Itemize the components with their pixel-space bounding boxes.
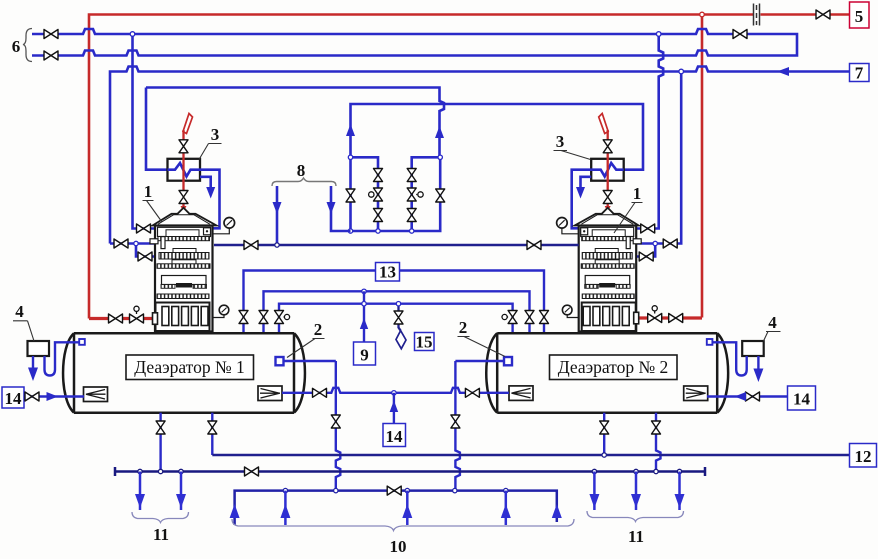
brace and label 11 left: [132, 512, 189, 523]
svg-text:11: 11: [628, 527, 644, 546]
wire: left regulator group piping: [351, 157, 441, 231]
label box 14 middle: [383, 424, 406, 447]
valve red above HX1: [179, 140, 188, 153]
valve on header 6 upper left: [44, 30, 58, 39]
wire: drain stand from tank 2 level tap (x=455.4): [455, 361, 460, 491]
heat exchanger U1 (left, item 3): [168, 159, 201, 181]
valve on transfer line right: [465, 388, 479, 397]
node at 15-line: [396, 302, 400, 306]
brace and label 11 right: [587, 511, 684, 522]
valve on 14 right: [746, 392, 760, 401]
valve on manifold 10: [387, 486, 401, 495]
node: 8 stub joins equalizer: [275, 243, 279, 247]
deaerator tank 2 shell: [486, 333, 728, 413]
wire: column 2 feedwater nozzles from line 7: [636, 72, 681, 257]
valve on header 6 lower left: [44, 51, 58, 60]
wire: red steam feed to column 1 bottom: [89, 317, 153, 320]
wire: HX2 vent with down arrow: [581, 177, 592, 190]
hydroseal device 4 on tank 2: [742, 341, 764, 356]
flow arrow up on x=350.5: [346, 124, 355, 136]
flow arrow up on x=439.5: [435, 126, 444, 138]
svg-text:10: 10: [390, 537, 407, 556]
wire: transfer line between tanks y=392.8: [282, 388, 509, 393]
valve on 14 left: [25, 392, 39, 401]
deaerator column 1 (item 1): [150, 208, 217, 332]
flame symbol (vapor) above HX1: [183, 114, 193, 134]
control valve left group bypass 2: [374, 188, 383, 201]
valve on header 6 upper right: [733, 30, 747, 39]
valve left group main: [346, 189, 355, 202]
wire: inputs manifold 10 (y=490.6): [235, 491, 557, 525]
svg-text:4: 4: [15, 302, 24, 321]
svg-text:Деаэратор № 1: Деаэратор № 1: [134, 357, 245, 377]
sparger right in tank 1: [258, 386, 282, 401]
pressure gauge column 2 bottom: [567, 315, 578, 318]
deaerator column 2 (item 1, mirrored): [575, 208, 642, 332]
node at 9-line and inner header: [362, 302, 366, 306]
wire: blue coil through HX1 and outlet to column 1 roof: [168, 163, 220, 228]
svg-text:13: 13: [379, 263, 396, 282]
wire: blue header 6 upper (y=34): [32, 29, 797, 56]
svg-text:14: 14: [386, 427, 404, 446]
svg-text:4: 4: [768, 313, 777, 332]
svg-text:2: 2: [314, 320, 323, 339]
valve on y=291.3 drop right: [525, 311, 534, 324]
flow arrow left on 14 right: [735, 392, 747, 401]
wire: blue coil through HX2 and outlet to column 2 roof: [572, 163, 624, 228]
flame symbol (vapor) above HX2: [599, 114, 609, 134]
wire: tank 2 bottom drop to drain header: [656, 413, 661, 472]
wire: tank 1 bottom drop to line 12 header: [211, 413, 213, 455]
wire: sampling line 15: [399, 304, 401, 331]
orifice device on steam header: [754, 4, 760, 26]
sparger left in tank 2: [509, 386, 533, 401]
label box 9: [354, 342, 376, 365]
valve on drain stand 1: [331, 415, 340, 428]
valve on column 2 upper nozzle: [641, 224, 655, 233]
valve on equalizer left: [244, 241, 258, 250]
valve on column 1 lower nozzle: [138, 252, 152, 261]
sparger right in tank 2: [684, 386, 708, 401]
node tank2 drop on line 12: [602, 453, 606, 457]
valve right group bypass 3: [407, 209, 416, 222]
wire: cross line y=87.5 (right valve group to HX1): [146, 88, 444, 158]
svg-text:3: 3: [556, 132, 565, 151]
wire: column 1 feedwater nozzles from line 7: [110, 244, 155, 257]
wire: tank 2 bottom drop to line 12 header: [603, 413, 605, 455]
outputs 11 right: stubs with down arrows: [594, 472, 679, 511]
svg-text:1: 1: [144, 182, 153, 201]
valve on 15-line: [394, 311, 403, 324]
control valve on y=303.7 drop right: [508, 311, 517, 324]
svg-text:7: 7: [855, 64, 864, 83]
control valve on y=303.7 drop left: [275, 311, 284, 324]
svg-text:8: 8: [297, 161, 306, 180]
nodes on manifold 10: [283, 488, 287, 492]
flow arrow up on 9-line: [360, 318, 368, 329]
wire: red steam line through HX2 down to column 2: [607, 130, 609, 209]
valve on equalizer right: [527, 241, 541, 250]
svg-text:9: 9: [360, 346, 369, 365]
pressure gauge column 1 top: [213, 228, 230, 234]
node on line 7 at x=681.2: [679, 69, 684, 74]
wire: middle header y=291.3: [264, 291, 530, 333]
wire: input 8 right stub to group manifold: [331, 186, 351, 231]
wire: line from label 7 (y=71.5): [110, 67, 850, 244]
wire: drain header y=471.5: [115, 467, 705, 476]
valve on red feed left: [109, 314, 123, 323]
wire: level line tank 2 to drain stand: [455, 360, 504, 362]
valve on y=291.3 drop left: [259, 311, 268, 324]
wire: tank 1 bottom drop to drain header: [159, 413, 161, 472]
level tap square on tank 1 (item 2): [276, 357, 284, 365]
valve red below HX2: [603, 191, 612, 204]
node on y=291.3 at x=364: [362, 289, 366, 293]
svg-text:1: 1: [633, 184, 642, 203]
svg-text:14: 14: [793, 390, 811, 409]
wire: red steam header (top, to label 5): [89, 15, 850, 319]
nodes on group bottom manifold: [348, 229, 352, 233]
brace and label 10: [232, 519, 574, 531]
wire: line from 9 up to headers: [363, 291, 365, 342]
svg-text:2: 2: [459, 318, 468, 337]
valve red above HX2: [603, 140, 612, 153]
svg-text:Деаэратор № 2: Деаэратор № 2: [558, 357, 669, 377]
valve on 13 drop right: [540, 311, 549, 324]
svg-text:15: 15: [416, 333, 433, 352]
wire: cross line y=104 (left valve group to HX2): [351, 104, 644, 170]
wire: vertical feed to column 2 upper nozzle (x=658.7): [636, 34, 663, 229]
input stubs with up arrows on manifold 10: [285, 491, 505, 525]
flow arrow down on 8 right stub: [327, 202, 336, 214]
label box 14 right: [788, 386, 816, 410]
label box 7: [850, 64, 870, 82]
valve left group bypass 1: [374, 169, 383, 182]
valve on column 2 middle nozzle: [663, 239, 677, 248]
valve on drain header: [245, 467, 259, 476]
wire: x=146 drop into HX1 left inlet: [146, 88, 168, 170]
outputs 11 left: stubs with down arrows: [140, 472, 181, 511]
nodes on drain header: [138, 469, 142, 473]
node on header 6 at x=132.5: [130, 32, 135, 37]
svg-text:5: 5: [855, 7, 864, 26]
pressure gauge column 1 bottom: [213, 315, 224, 318]
svg-text:11: 11: [153, 525, 169, 544]
wire: drain stand from tank 1 level tap (x=335.8): [336, 361, 341, 491]
control valve on red feed right: [648, 314, 662, 323]
valve on transfer line left: [313, 388, 327, 397]
svg-text:14: 14: [5, 389, 23, 408]
wire: vertical feed to column 1 upper nozzle: [133, 34, 156, 229]
wire: steam equalizer line between columns (y=245): [214, 244, 579, 247]
wire: inner header y=303.7: [279, 304, 513, 333]
level tap square on tank 2 (item 2): [504, 357, 512, 365]
valve right group bypass 1: [407, 169, 416, 182]
wire: input 8 left stub: [276, 186, 279, 245]
flag symbol 15: [396, 331, 406, 349]
wire: feed 14 into tank 1: [24, 395, 84, 397]
name plate tank 1: [126, 355, 254, 380]
valve on steam header near 5: [816, 10, 830, 19]
label box 5: [850, 2, 870, 28]
valve on column 2 lower nozzle: [639, 252, 653, 261]
label box 12: [850, 444, 877, 468]
hydroseal device 4 on tank 1: [28, 341, 50, 356]
valve on column 1 upper nozzle: [137, 224, 151, 233]
wire: red steam feed to column 2 bottom: [638, 316, 702, 319]
wire: HX1 vent with down arrow: [200, 177, 211, 190]
label box 14 left: [2, 387, 24, 408]
node: 14 riser joins transfer line: [392, 391, 396, 395]
sparger left in tank 1: [84, 387, 108, 402]
valve on red feed right: [669, 314, 683, 323]
valve right group main: [436, 189, 445, 202]
node on header 6 at x=658.7: [656, 32, 661, 37]
valve on 13 drop left: [239, 311, 248, 324]
pressure gauge column 2 top: [562, 228, 579, 234]
flow arrow down on 8 left stub: [273, 202, 282, 214]
valve on column 1 middle nozzle: [114, 239, 128, 248]
flow arrow right on 14 left: [47, 392, 59, 401]
valve left group bypass 3: [374, 209, 383, 222]
node at x=136 y=243.5: [134, 241, 138, 245]
heat exchanger U2 (right, item 3): [591, 159, 624, 181]
svg-text:12: 12: [855, 447, 872, 466]
wire: riser from 14 middle: [393, 393, 395, 424]
node at x=655.2 y=243.5: [653, 241, 657, 245]
deaerator tank 1 shell: [63, 333, 305, 413]
label box 13: [376, 263, 400, 282]
name plate tank 2: [550, 355, 678, 380]
wire: feed 14 into tank 2: [707, 395, 788, 397]
control valve on red feed left: [130, 314, 144, 323]
valve red below HX1: [179, 191, 188, 204]
node left group top: [348, 155, 352, 159]
label box 15: [415, 333, 435, 351]
flow arrow on line 7 (pointing left): [777, 67, 789, 76]
wire: red steam line through HX1 down to column 1: [182, 130, 184, 209]
wire: level line tank 1 to drain stand: [284, 360, 336, 362]
svg-text:6: 6: [12, 37, 21, 56]
control valve right group bypass 2: [407, 188, 416, 201]
svg-text:3: 3: [211, 125, 220, 144]
node right group top: [438, 155, 442, 159]
wire: line 13 (column/tank interconnect): [244, 271, 545, 334]
valve on drain stand 2: [451, 415, 460, 428]
wire: header to label 12 (y=455): [212, 454, 849, 457]
node: red tee junction: [700, 12, 705, 17]
